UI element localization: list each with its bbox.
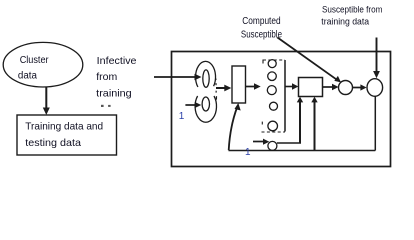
circle1 (computed susceptible) bbox=[339, 81, 353, 95]
vertical arrow into circle2 bbox=[376, 38, 378, 73]
svg-text:Infective: Infective bbox=[97, 55, 137, 67]
svg-text:Susceptible: Susceptible bbox=[241, 30, 283, 41]
svg-text:Susceptible from: Susceptible from bbox=[322, 4, 382, 15]
svg-text:testing data: testing data bbox=[25, 138, 81, 149]
arrow: ellipse to rect bbox=[45, 88, 47, 111]
connector: ovals to rect1 bbox=[216, 87, 227, 89]
svg-text:Cluster: Cluster bbox=[20, 55, 49, 66]
svg-text:training data: training data bbox=[321, 17, 369, 28]
arrow: rect2 to circle1 bbox=[323, 86, 335, 88]
dashed box (hidden layer) bbox=[263, 59, 285, 61]
svg-text:1: 1 bbox=[179, 111, 185, 122]
svg-text:1: 1 bbox=[245, 147, 251, 158]
rect1 (vertical) bbox=[232, 66, 246, 103]
slant arrow from bottom line into rect1 bottom bbox=[229, 107, 238, 151]
dots under training bbox=[101, 105, 104, 107]
svg-text:Training data and: Training data and bbox=[25, 122, 103, 133]
arrow: hidden layer bracket to rect2 bbox=[285, 86, 294, 88]
feedback: circle2 down and along bottom bbox=[374, 96, 376, 150]
rect: Training data and testing data bbox=[17, 115, 117, 155]
bias arrow into small circle bbox=[253, 141, 265, 143]
arrow: circle1 to circle2 bbox=[353, 87, 363, 89]
up arrow into rect2 bottom (from feedback) bbox=[314, 101, 316, 151]
input group 2: outer ellipse + inner oval bbox=[195, 96, 216, 122]
svg-text:Computed: Computed bbox=[242, 16, 280, 27]
big box bbox=[172, 52, 391, 167]
small bias circle bbox=[268, 141, 277, 150]
diagonal arrow: computed susceptible to circle1 bbox=[277, 37, 337, 79]
svg-text:from: from bbox=[96, 71, 117, 83]
svg-text:training: training bbox=[96, 87, 132, 99]
long arrow: infective to input oval bbox=[154, 76, 197, 78]
bias arrow into lower oval bbox=[185, 104, 197, 106]
line from small circle up into rect2 bottom bbox=[277, 142, 301, 144]
circle2 (comparison) bbox=[367, 79, 383, 97]
svg-text:data: data bbox=[18, 71, 38, 82]
hidden circles bbox=[268, 60, 276, 68]
arrow: rect1 to hidden layer bbox=[246, 86, 257, 88]
input group 1: outer ellipse + inner oval bbox=[196, 61, 216, 87]
rect2 bbox=[299, 78, 323, 97]
ellipse: Cluster data bbox=[3, 42, 83, 87]
